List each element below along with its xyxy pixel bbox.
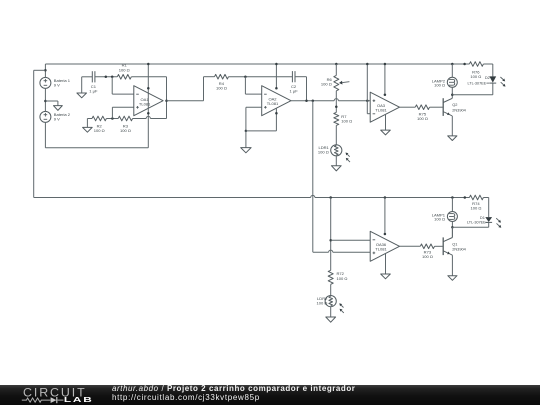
svg-text:100 Ω: 100 Ω <box>470 74 481 79</box>
svg-text:1 μF: 1 μF <box>290 89 299 94</box>
svg-text:D2: D2 <box>485 75 490 80</box>
svg-text:TL081: TL081 <box>375 108 387 113</box>
svg-text:100 Ω: 100 Ω <box>337 276 348 281</box>
svg-text:D1: D1 <box>480 215 485 220</box>
svg-text:100 Ω: 100 Ω <box>318 149 329 154</box>
svg-text:TL081: TL081 <box>375 247 387 252</box>
svg-text:LAB: LAB <box>64 396 94 404</box>
svg-text:1 μF: 1 μF <box>89 89 98 94</box>
svg-text:TL081: TL081 <box>139 102 151 107</box>
svg-text:2N3904: 2N3904 <box>452 246 466 251</box>
svg-text:100 Ω: 100 Ω <box>94 128 105 133</box>
svg-text:100 Ω: 100 Ω <box>216 85 227 90</box>
svg-text:2N3904: 2N3904 <box>452 107 466 112</box>
svg-text:100 Ω: 100 Ω <box>470 206 481 211</box>
svg-text:100 Ω: 100 Ω <box>120 128 131 133</box>
svg-text:LTL-307EE: LTL-307EE <box>467 221 486 225</box>
svg-text:LTL-307EE: LTL-307EE <box>467 82 486 86</box>
svg-text:100 Ω: 100 Ω <box>119 67 130 72</box>
svg-text:arthur.abdo / Projeto 2 carrin: arthur.abdo / Projeto 2 carrinho compara… <box>112 385 355 393</box>
svg-text:100 Ω: 100 Ω <box>422 254 433 259</box>
svg-text:100 Ω: 100 Ω <box>316 301 327 306</box>
svg-text:100 Ω: 100 Ω <box>417 116 428 121</box>
svg-text:http://circuitlab.com/cj33kvtp: http://circuitlab.com/cj33kvtpew85p <box>112 393 260 402</box>
svg-text:9 V: 9 V <box>54 83 60 88</box>
svg-text:TL081: TL081 <box>267 101 279 106</box>
svg-text:100 Ω: 100 Ω <box>434 82 445 87</box>
svg-text:100 Ω: 100 Ω <box>434 216 445 221</box>
svg-text:9 V: 9 V <box>54 117 60 122</box>
svg-text:100 Ω: 100 Ω <box>321 82 332 87</box>
svg-text:100 Ω: 100 Ω <box>341 119 352 124</box>
